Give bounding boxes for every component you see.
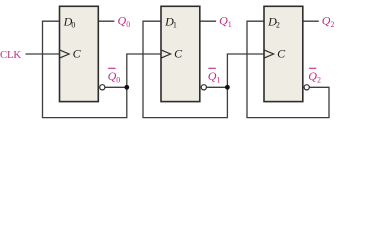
node Q1bar label bbox=[208, 67, 215, 69]
svg-text:Q: Q bbox=[219, 13, 228, 27]
svg-text:Q: Q bbox=[322, 13, 331, 27]
clock triangle U1 bbox=[60, 50, 70, 58]
svg-text:1: 1 bbox=[217, 76, 221, 85]
wire CLK input bbox=[26, 53, 60, 55]
svg-text:2: 2 bbox=[276, 21, 280, 30]
clock triangle U2 bbox=[161, 50, 171, 58]
svg-text:Q: Q bbox=[308, 69, 317, 83]
svg-text:0: 0 bbox=[71, 21, 75, 30]
svg-text:1: 1 bbox=[228, 20, 232, 29]
wire Q2 output bbox=[303, 20, 319, 22]
node Q0bar label bbox=[108, 67, 115, 69]
svg-text:2: 2 bbox=[331, 20, 335, 29]
svg-text:2: 2 bbox=[317, 76, 321, 85]
flip-flop U3 box bbox=[264, 6, 303, 101]
flip-flop U2 box bbox=[161, 6, 200, 101]
node Q2bar label bbox=[309, 67, 316, 69]
svg-text:Q: Q bbox=[208, 69, 217, 83]
svg-text:C: C bbox=[277, 46, 286, 60]
wire Q1 output bbox=[200, 20, 216, 22]
wire Q1bar output bbox=[207, 86, 228, 88]
svg-text:C: C bbox=[73, 46, 82, 60]
wire clock FF2 to FF3 bbox=[227, 54, 264, 87]
bubble Q2bar bbox=[304, 85, 309, 90]
svg-text:0: 0 bbox=[126, 20, 130, 29]
svg-text:0: 0 bbox=[116, 76, 120, 85]
bubble Q0bar bbox=[100, 85, 105, 90]
wire Q0 output bbox=[98, 20, 114, 22]
wire Q0bar output bbox=[105, 86, 127, 88]
svg-text:Q: Q bbox=[118, 13, 127, 27]
svg-text:1: 1 bbox=[173, 21, 177, 30]
junction dot Q0bar bbox=[124, 85, 129, 90]
flip-flop U1 box bbox=[60, 6, 99, 101]
bubble Q1bar bbox=[201, 85, 206, 90]
svg-text:Q: Q bbox=[108, 69, 117, 83]
wire feedback loop FF1 (Q0bar to D0) bbox=[43, 21, 127, 117]
junction dot Q1bar bbox=[225, 85, 230, 90]
wire feedback loop FF2 (Q1bar to D1) bbox=[143, 21, 227, 117]
wire clock FF1 to FF2 bbox=[127, 54, 161, 87]
svg-text:CLK: CLK bbox=[0, 49, 21, 61]
wire feedback loop FF3 (Q2bar to D2) bbox=[247, 21, 329, 117]
clock triangle U3 bbox=[264, 50, 274, 58]
svg-text:C: C bbox=[174, 46, 183, 60]
